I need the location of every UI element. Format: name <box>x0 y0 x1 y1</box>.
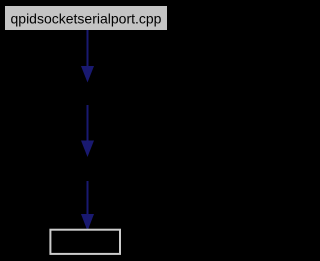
node arrowhead 2 <box>81 141 94 158</box>
node empty bottom box <box>50 230 120 254</box>
node arrowhead 3 <box>81 214 94 231</box>
wire edge 2 shaft <box>87 105 89 144</box>
node qpidsocketserialport.cpp <box>5 6 167 30</box>
svg-text:qpidsocketserialport.cpp: qpidsocketserialport.cpp <box>11 11 162 27</box>
wire edge 1 shaft <box>87 30 89 69</box>
wire edge 3 shaft <box>87 181 89 216</box>
node arrowhead 1 <box>81 66 94 83</box>
